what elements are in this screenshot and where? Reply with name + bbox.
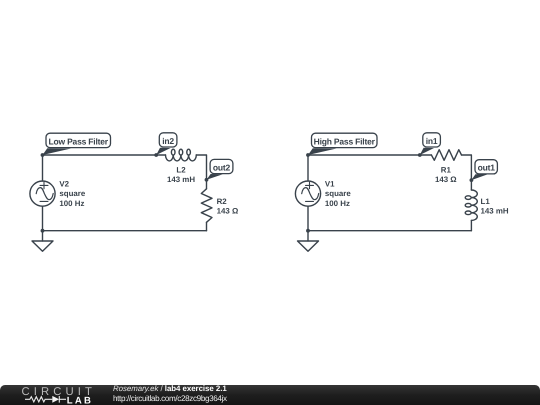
flag out2 <box>207 159 233 179</box>
wire V1 top lead <box>307 155 309 181</box>
ground (left) <box>32 241 53 251</box>
node dot: out2 <box>205 178 209 182</box>
voltage source V1 <box>295 181 320 206</box>
svg-text:LAB: LAB <box>67 396 93 405</box>
inductor L2 <box>166 149 197 161</box>
wire V1 bottom lead <box>307 206 309 231</box>
wire R1 to corner, down to out1 <box>462 155 472 180</box>
wire top rail (V1 top to in1) <box>308 154 420 156</box>
voltage source V2 <box>30 181 55 206</box>
flag in1 <box>420 133 441 155</box>
flag High Pass Filter <box>308 133 377 155</box>
node dot: in1 <box>418 153 422 157</box>
svg-text:http://circuitlab.com/c28zc9bg: http://circuitlab.com/c28zc9bg364jx <box>113 394 227 403</box>
logo wire + resistor + diode <box>25 396 66 403</box>
wire in1 to R1 <box>420 154 432 156</box>
inductor L1 <box>465 190 477 220</box>
wire bottom rail left <box>43 230 207 232</box>
flag Low Pass Filter <box>43 133 111 155</box>
ground (right) <box>298 241 319 251</box>
node dot: bottom right circuit <box>306 229 310 233</box>
flag in2 <box>156 133 177 155</box>
resistor R1 <box>431 150 461 161</box>
footer title text <box>113 384 227 403</box>
resistor R2 <box>201 189 212 223</box>
wire V2 top lead <box>42 155 44 181</box>
wire V2 bottom lead <box>42 206 44 231</box>
wire L1 bottom to rail corner <box>470 220 472 230</box>
wire R2 bottom to rail corner <box>206 222 208 230</box>
node dot: in2 <box>154 153 158 157</box>
node dot: out1 <box>470 178 474 182</box>
node dot: High Pass Filter net <box>306 153 310 157</box>
flag out1 <box>471 160 497 180</box>
wire ground stub right <box>307 231 309 241</box>
footer bar <box>0 385 540 405</box>
wire out2 to R2 top <box>206 180 208 189</box>
wire bottom rail right circuit <box>308 230 471 232</box>
CircuitLab logo <box>22 386 97 405</box>
wire top rail left (V2 top to in2) <box>43 154 157 156</box>
node dot: Low Pass Filter net <box>41 153 45 157</box>
svg-text:Rosemary.ek / lab4 exercise 2.: Rosemary.ek / lab4 exercise 2.1 <box>113 384 227 393</box>
wire out1 to L1 top <box>470 180 472 190</box>
wire ground stub <box>42 231 44 241</box>
wire inductor to top-right corner, down to out2 <box>196 155 206 180</box>
wire in2 to inductor <box>156 154 165 156</box>
node dot: bottom left <box>41 229 45 233</box>
